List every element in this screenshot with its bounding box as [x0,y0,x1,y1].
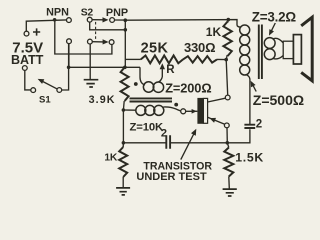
svg-text:330Ω: 330Ω [184,40,215,55]
wire T1 primary to pot wiper [158,77,162,82]
wire base contact to socket [186,110,198,112]
battery B1 plus sign [33,28,40,35]
wire S2 pole1 PNP contact to top rail [115,19,126,21]
wire S2 pole2 NPN contact down to bus [68,44,70,68]
wire collector junction to collector contact [226,60,228,96]
emitter arrowhead [210,118,217,123]
wire 330&#937; to junction [217,58,226,60]
transformer T1 secondary winding Z=10K [136,105,164,115]
svg-text:R: R [166,64,175,76]
transformer T2 secondary winding Z=3.2 [264,38,275,60]
emitter contact circle [224,123,229,128]
transformer T1 primary phase dot [134,82,138,86]
wire top rail into T2 primary [237,26,241,28]
capacitor C1 2uF [166,135,170,149]
switch S2 mechanical link (dashed) [95,22,97,40]
wire ground stem from S2 pole2 common [89,44,91,80]
node pole1-common feed joins PNP riser [124,28,128,32]
wire emitter diagonal [208,117,225,124]
wire emitter contact down [226,128,228,143]
callout arrowhead [191,129,196,136]
wire emitter junction to C2 [227,129,250,143]
wire 3.9K to secondary node [122,101,125,110]
speaker frame small box [283,41,293,58]
svg-text:2: 2 [256,119,262,131]
wire bias node down to output bus [122,110,124,143]
wire bus elbow into T1 primary [140,67,145,85]
wire top rail to output transformer [125,20,237,26]
svg-text:S1: S1 [39,94,51,105]
speaker driver box [293,35,301,64]
svg-text:S2: S2 [81,8,94,19]
switch S2 pole2 common [88,39,93,44]
speaker cone [301,17,312,81]
svg-text:3.9K: 3.9K [89,94,116,106]
node bus at 3.9K [123,66,127,70]
svg-text:NPN: NPN [46,7,69,19]
capacitor C2 2uF [244,125,255,128]
wire 1K top lead [227,20,230,23]
pot wiper stem [161,68,163,77]
wire T1 secondary to base contact [163,107,181,111]
transistor socket body (black) [197,98,203,124]
node bus at S1 riser [67,66,71,70]
svg-text:Z=3.2Ω: Z=3.2Ω [252,9,297,24]
node T1 secondary / bias [122,108,126,112]
svg-text:Z=200Ω: Z=200Ω [165,80,211,95]
resistor 1K (collector) [223,22,231,57]
wire 1.5K to ground [228,177,231,189]
node 1K top [227,18,231,22]
wire T1 secondary left lead [123,109,136,111]
wire T2 primary bottom to C2 [247,75,250,80]
wire bias node to 1K [122,143,124,147]
wire riser to 25K pot [125,58,141,60]
callout arrow Z=3.2 [270,23,275,34]
wire polarity cross line [55,20,112,54]
switch S2 pole2 PNP contact [109,40,114,45]
resistor 1.5K [224,148,233,177]
transformer T1 primary winding Z=200 [143,82,163,93]
potentiometer R 25K [141,56,183,64]
wire T2 secondary top lead [273,38,284,43]
battery B1 terminal - [22,66,27,71]
pot wiper arrowhead [160,63,165,69]
node collector junction [224,58,228,62]
svg-text:BATT: BATT [11,53,44,67]
node output bus left [122,141,126,145]
switch S1 blade [40,80,58,89]
svg-text:UNDER TEST: UNDER TEST [136,171,207,183]
transformer T2 primary winding Z=500 [240,25,250,75]
switch S2 pole1 PNP contact [110,18,115,23]
wire battery negative to S1 [25,70,31,90]
base arrowhead [192,109,197,114]
svg-text:Z=500Ω: Z=500Ω [253,92,304,108]
wire T2 secondary bottom lead [273,56,284,59]
wire C1 to emitter junction [170,142,227,144]
wire S1 to S2 bus [62,44,69,91]
switch S1 right contact [57,88,62,93]
wire emitter bus [69,66,140,68]
wire output bus to C1 [123,142,166,144]
transformer T2 core [259,25,262,80]
switch S1 left contact [31,88,36,93]
switch S2 pole1 blade arrowhead [103,17,109,22]
transformer T1 secondary phase dot [174,103,178,107]
resistor 330&#937; [183,56,217,62]
base contact circle [181,109,186,114]
wire collector diagonal [208,98,226,102]
node top-rail corner [124,18,128,22]
transistor socket body (white bar) [203,98,207,123]
callout arrow to transistor [181,131,196,160]
switch S1 blade arrowhead [38,79,45,84]
battery B1 terminal + [24,31,29,36]
ground (S2 common) [84,80,99,87]
svg-text:1K: 1K [104,152,117,163]
ground (below 1K) [116,188,130,195]
node emitter/1.5K junction [226,141,230,145]
wire 1.5K top lead [227,143,229,148]
switch S2 pole1 blade [92,19,103,21]
wire 1K bottom lead [226,55,227,60]
switch S2 pole1 common [87,17,92,22]
resistor 3.9K [121,67,129,101]
transformer T1 core [130,98,173,101]
callout arrow Z=500 [252,83,257,92]
svg-text:Z=10K: Z=10K [130,122,164,134]
collector contact circle [225,95,230,100]
resistor 1K (lower left) [119,147,127,177]
wire S2 pole1 common to PNP feed [90,22,124,30]
callout arrowhead Z=3.2 [269,29,274,35]
wire 1K to ground [122,177,124,188]
callout arrowhead Z=500 [251,81,256,88]
svg-text:PNP: PNP [106,7,128,19]
svg-text:1.5K: 1.5K [235,151,264,165]
wire PNP riser [124,20,126,67]
wire C2 to T2 primary [249,80,251,125]
svg-text:1K: 1K [206,25,222,39]
switch S2 pole2 blade [92,41,103,43]
ground (below 1.5K) [223,189,237,196]
switch S2 pole2 blade arrowhead [103,39,109,44]
wire battery positive to S2 NPN contact [26,20,66,31]
switch S2 pole1 NPN contact [67,18,72,23]
node battery+/NPN branch [53,18,57,22]
switch S2 pole2 NPN contact [67,39,72,44]
